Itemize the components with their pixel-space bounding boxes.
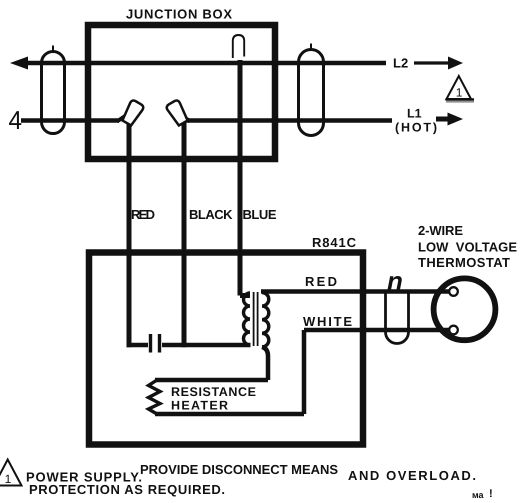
svg-text:L1: L1 [407,107,422,121]
wire L2 [26,61,386,66]
svg-text:HEATER: HEATER [171,399,228,413]
svg-text:PROTECTION AS REQUIRED.: PROTECTION AS REQUIRED. [29,482,225,497]
cable clamp right tick [310,44,312,52]
svg-text:!: ! [489,488,493,500]
wire L1 left segment [21,118,119,123]
arrow L1 right [436,117,449,122]
wire capacitor row (left part) [127,343,149,348]
wire WHITE to thermostat [304,328,450,333]
svg-text:WHITE: WHITE [303,314,352,329]
svg-text:RED: RED [305,274,337,289]
wire L1 kink into right wire nut [180,114,190,122]
wire L1 right segment [184,118,392,123]
junction box [88,25,275,159]
svg-text:1: 1 [5,472,12,486]
resistor heater zigzag [149,380,161,414]
wire L1 kink into left wire nut [117,114,128,122]
svg-text:AND OVERLOAD.: AND OVERLOAD. [348,468,476,483]
svg-text:1: 1 [456,86,463,100]
svg-text:L2: L2 [393,56,408,71]
clamp staple n over blue wire [233,35,244,58]
thermostat terminal top [449,287,458,296]
thermostat terminal bottom [449,326,458,335]
wire heater bottom row [155,412,304,417]
svg-text:ма: ма [472,490,485,500]
wire WHITE vertical drop [302,330,307,414]
thermostat circle [434,278,496,340]
wire nut left [121,99,145,126]
clamp staple U at thermostat [386,292,409,344]
relay box R841C [89,253,363,445]
cable clamp left (capsule) [42,52,65,134]
wire capacitor row (right part) [162,343,251,348]
svg-text:BLUE: BLUE [243,207,277,222]
wire RED to thermostat [261,289,450,294]
svg-text:PROVIDE DISCONNECT MEANS: PROVIDE DISCONNECT MEANS [140,462,338,477]
cable clamp left tick [52,46,54,54]
transformer T1 primary coil [244,293,250,345]
svg-text:n: n [387,266,403,296]
warning triangle 1 (bottom left) [0,460,22,486]
svg-text:4: 4 [9,105,23,135]
svg-text:RED: RED [131,207,155,222]
transformer T1 secondary coil [262,293,269,347]
warning triangle 1 (right) [447,76,472,99]
svg-text:2-WIRE: 2-WIRE [418,223,463,238]
capacitor C1 bars [149,334,152,353]
svg-text:RESISTANCE: RESISTANCE [171,385,256,399]
arrow L2 right [414,61,449,64]
wire BLUE vertical [238,60,243,296]
svg-text:BLACK: BLACK [189,207,233,222]
svg-text:THERMOSTAT: THERMOSTAT [418,255,510,270]
svg-text:R841C: R841C [312,235,357,250]
transformer T1 primary jog [240,293,250,298]
arrow L2 left [10,57,28,70]
wire secondary bottom drop [262,347,268,380]
wire BLACK vertical [182,115,187,347]
svg-text:(HOT): (HOT) [395,121,437,135]
svg-text:JUNCTION BOX: JUNCTION BOX [126,7,232,22]
cable clamp right (capsule) [299,50,324,136]
wire RED vertical [127,115,132,347]
transformer T1 core [253,292,255,346]
svg-text:LOW VOLTAGE: LOW VOLTAGE [418,240,517,255]
wire nut right [165,99,189,126]
wire heater top row [155,378,268,383]
